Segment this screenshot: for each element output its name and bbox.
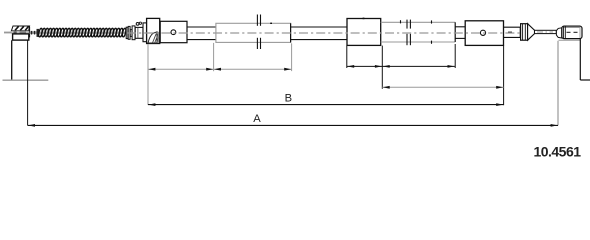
protective coil spring over cable <box>38 28 127 37</box>
black end cap of gray sleeve <box>290 23 292 42</box>
tick dot on gray sleeve top <box>270 23 272 24</box>
chained dimension line left (gray) <box>148 68 292 71</box>
tick mark on gray tube <box>400 20 402 23</box>
narrow conduit tube section 2 <box>291 27 347 40</box>
left hanger line from fitting <box>11 40 13 80</box>
left fitting right edge <box>29 27 31 37</box>
extension line at rear housing <box>503 46 505 106</box>
left eyelet fitting: front face rectangle <box>13 34 29 40</box>
extension line mid (gray) <box>213 43 215 71</box>
extension line A-left <box>27 41 29 126</box>
cone taper to inner rod <box>528 24 535 41</box>
cable between fitting and spring <box>30 31 39 35</box>
wide conduit sleeve (gray) section <box>216 23 291 42</box>
conduit end housing with eyelet <box>160 21 187 42</box>
gray washer line under barrel <box>559 39 581 41</box>
cable entry line (left) <box>4 32 13 34</box>
spring inner cable core <box>39 32 125 34</box>
washer stack at spring end <box>126 26 135 40</box>
dimension line A <box>28 124 558 127</box>
spacer block before bracket <box>143 23 147 42</box>
housing eyelet circle <box>171 30 176 35</box>
large sleeve block (black outline) <box>347 18 381 46</box>
dimension line B <box>148 103 504 106</box>
right mounting panel corner <box>580 39 590 80</box>
mounting bracket plate <box>147 18 160 43</box>
rear housing eyelet circle <box>480 30 485 35</box>
svg-text:10.4561: 10.4561 <box>533 143 581 159</box>
tick marks pair on gray tube <box>431 20 433 43</box>
extension line at sleeve end (gray) <box>291 43 293 71</box>
extension line at block left <box>346 46 348 68</box>
left panel surface line <box>3 79 49 81</box>
narrow conduit tube section 1 <box>187 27 216 40</box>
black end cap of gray tube <box>454 22 456 42</box>
extension line at bracket (gray) <box>147 44 149 105</box>
extension line at block right <box>381 46 383 89</box>
left eyelet fitting: cable slot band <box>11 31 29 34</box>
end ferrule ring <box>521 24 528 41</box>
dimension line rear section (gray) <box>382 86 503 89</box>
chained dimension line right (black) <box>347 65 455 68</box>
rear conduit housing with eyelet <box>465 21 503 46</box>
break mark lines on gray sleeve <box>257 15 260 50</box>
svg-text:A: A <box>253 113 261 125</box>
short tube into rear housing <box>455 27 465 39</box>
wide gray tube toward rear <box>381 22 456 42</box>
retaining clip loops on top <box>136 22 141 25</box>
adjuster body cylinder <box>135 27 143 38</box>
left eyelet fitting: hatched top face <box>11 26 29 31</box>
exposed inner cable rod <box>535 30 557 33</box>
svg-text:B: B <box>285 93 292 105</box>
spring start collar <box>37 29 40 37</box>
extension line at gray tube end <box>454 44 456 68</box>
wedge flange before end barrel <box>556 28 561 38</box>
rear exit tube <box>504 27 521 37</box>
cylindrical end barrel fitting <box>562 26 582 38</box>
extension line A-right (gray) <box>557 41 559 126</box>
centerline (dash-dot) along conduit <box>127 32 520 34</box>
break mark lines on gray tube <box>407 20 410 46</box>
